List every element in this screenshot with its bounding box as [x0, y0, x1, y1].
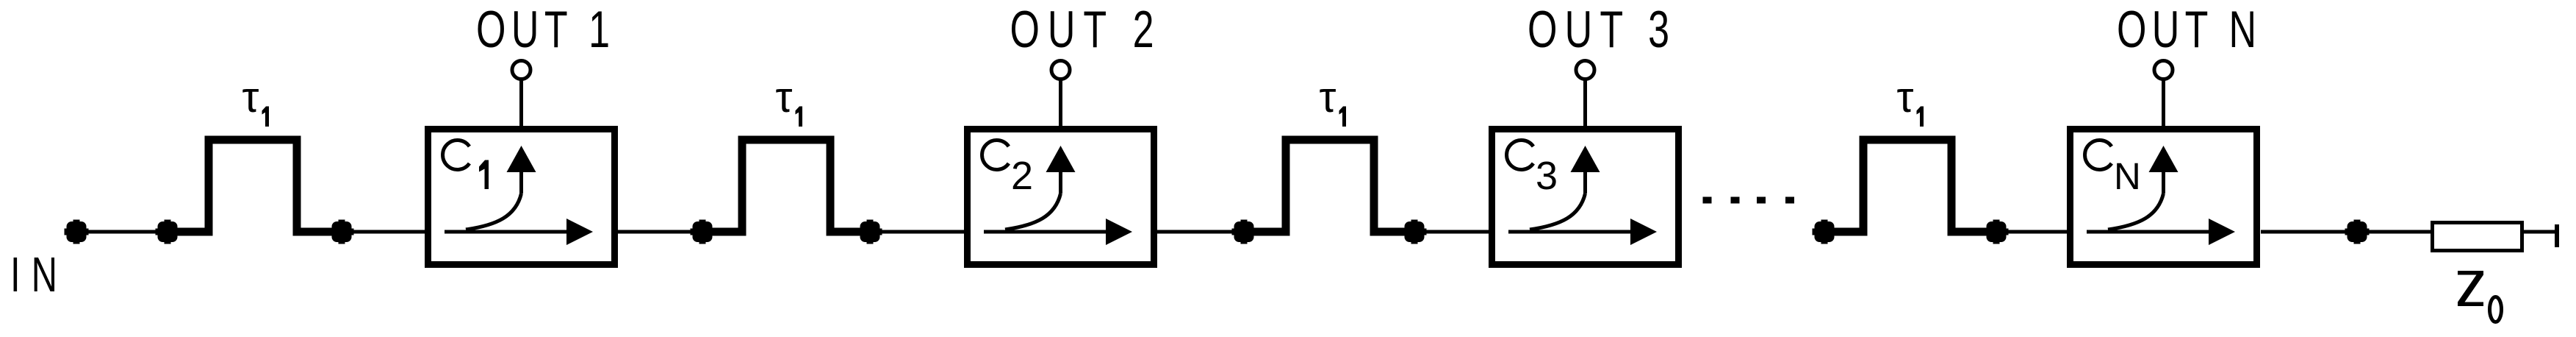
- svg-text:IN: IN: [10, 248, 57, 302]
- svg-text:N: N: [2114, 155, 2141, 197]
- svg-text:τ: τ: [776, 74, 793, 121]
- svg-text:2: 2: [1011, 154, 1033, 198]
- svg-text:τ: τ: [1320, 74, 1336, 121]
- svg-text:τ: τ: [1897, 74, 1914, 121]
- svg-text:3: 3: [1536, 154, 1558, 198]
- svg-text:OUT N: OUT N: [2117, 1, 2256, 59]
- svg-text:τ: τ: [242, 74, 259, 121]
